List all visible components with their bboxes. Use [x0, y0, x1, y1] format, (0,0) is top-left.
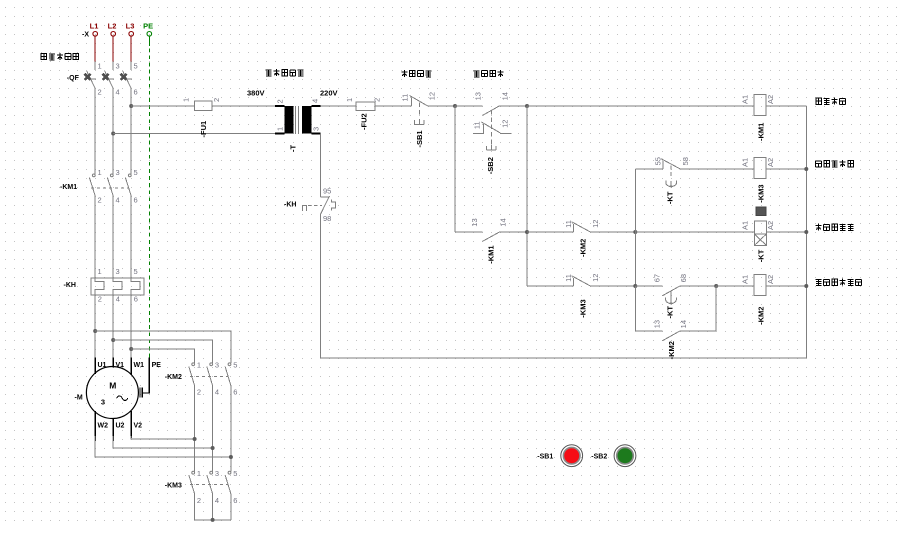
thermal contact KH trip symbol — [331, 199, 335, 210]
transformer T core lines — [296, 106, 299, 134]
node rung1 left of SB2 — [453, 104, 457, 108]
node 380V top tap (QF pole3) — [129, 104, 133, 108]
start button SB2 aux NC contact — [473, 122, 511, 133]
contactor KM3 pole1 contact — [189, 471, 195, 494]
contactor KM2 pole1 contact — [189, 363, 195, 386]
motor M stub W1 — [130, 358, 132, 375]
node 380V bottom tap (QF pole2) — [111, 132, 115, 136]
svg-text:2: 2 — [276, 99, 285, 103]
svg-text:PE: PE — [143, 22, 153, 31]
wire V2 to KM2 pole1 bottom — [131, 436, 194, 439]
wire rung4 left corner — [527, 285, 574, 287]
wire rung4 KT to node — [679, 285, 716, 287]
wire QF pole2 top — [112, 61, 114, 70]
chinese — [816, 224, 854, 231]
contactor KM3 pole2 contact — [207, 471, 213, 494]
svg-text:-KM2: -KM2 — [667, 341, 676, 359]
timer contact KT delay symbol — [666, 166, 677, 189]
node bus rung3 — [804, 230, 808, 234]
wire node to SB2 — [455, 105, 483, 107]
chinese — [816, 160, 854, 167]
svg-text:13: 13 — [470, 218, 479, 226]
wire tap U1 to KM2 pole3 — [95, 331, 231, 363]
motor M stub W2 — [94, 411, 96, 441]
svg-text:1: 1 — [98, 267, 102, 276]
svg-text:4: 4 — [116, 88, 120, 97]
svg-text:-KM2: -KM2 — [578, 239, 587, 257]
breaker QF pole1 blade — [85, 71, 96, 88]
svg-text:3: 3 — [215, 469, 219, 478]
wire coil KM1 A2 to bus — [766, 105, 806, 107]
wire bottom control bus — [321, 357, 807, 359]
svg-text:1: 1 — [345, 98, 354, 102]
svg-text:-KT: -KT — [666, 191, 675, 204]
svg-text:-KT: -KT — [757, 249, 766, 262]
wire holding branch left horizontal — [455, 231, 482, 233]
wire W2 to KM2 pole3 bottom — [95, 436, 231, 457]
svg-text:12: 12 — [591, 274, 600, 282]
wire coil KT A2 to bus — [766, 231, 806, 233]
motor M circle — [86, 367, 138, 419]
chinese label — [41, 53, 79, 60]
contactor KM2 pole3 contact — [225, 363, 231, 386]
wire KH98 down to bottom bus — [320, 214, 322, 358]
wire FU2 to SB1 — [375, 105, 412, 107]
svg-text:A1: A1 — [740, 95, 749, 104]
wire PE dashed run — [148, 48, 150, 357]
terminal L1 circle — [93, 32, 98, 37]
svg-text:A2: A2 — [766, 275, 775, 284]
svg-text:W2: W2 — [98, 422, 109, 429]
wire 380V bottom run — [113, 133, 275, 135]
start button SB2 actuator — [490, 110, 492, 144]
svg-text:6: 6 — [134, 195, 138, 204]
svg-text:14: 14 — [501, 92, 510, 100]
svg-text:4: 4 — [215, 496, 219, 505]
wire KM3 pole2 down — [212, 494, 214, 520]
wire KM1 pole3 bottom — [130, 196, 132, 278]
svg-text:-KM3: -KM3 — [757, 184, 766, 202]
svg-text:A1: A1 — [740, 158, 749, 167]
svg-text:11: 11 — [473, 121, 482, 129]
node rung4 x716 — [714, 284, 718, 288]
wire rung1 to KM1 coil — [527, 105, 754, 107]
svg-text:11: 11 — [401, 94, 410, 102]
contactor KM2 mechanical link — [190, 375, 228, 377]
svg-text:-X: -X — [82, 31, 89, 38]
wire KM3 pole3 down — [230, 494, 232, 520]
wire L1 stub — [94, 36, 96, 61]
svg-text:-FU2: -FU2 — [359, 113, 368, 130]
wire KM2 pole2 down — [212, 386, 214, 472]
contactor KM3 mechanical link — [190, 484, 228, 486]
motor M stub U1 — [94, 358, 96, 374]
svg-text:68: 68 — [679, 274, 688, 282]
breaker QF pole2 blade — [103, 71, 114, 88]
wire rung3 KM2NC to node — [590, 231, 635, 233]
svg-text:3: 3 — [116, 62, 120, 71]
svg-text:U2: U2 — [116, 422, 125, 429]
chinese label — [266, 69, 304, 76]
node bus rung2 — [804, 167, 808, 171]
svg-text:-KM2: -KM2 — [757, 307, 766, 325]
svg-text:380V: 380V — [247, 89, 265, 98]
transformer T primary winding — [275, 106, 293, 134]
wire tap V1 to KM2 pole2 — [113, 340, 212, 363]
wire rung4 to KT contact — [635, 285, 662, 287]
svg-text:3: 3 — [101, 397, 105, 406]
svg-text:-KH: -KH — [64, 282, 76, 289]
svg-text:W1: W1 — [134, 362, 145, 369]
svg-text:V2: V2 — [134, 422, 143, 429]
svg-text:-KM2: -KM2 — [165, 374, 182, 381]
timer contact -KT delayed NO contact — [662, 286, 679, 296]
motor M stub V2 — [130, 411, 132, 438]
pushbutton SB2 green head — [614, 445, 636, 467]
svg-text:14: 14 — [499, 218, 508, 226]
wire T pin3 down — [320, 134, 322, 198]
wire L2 stub — [112, 36, 114, 61]
wire rung4 to KM2 coil — [716, 285, 754, 287]
wire KH pole2 down — [112, 295, 114, 357]
svg-text:6: 6 — [134, 295, 138, 304]
node W2 join — [229, 455, 233, 459]
svg-text:5: 5 — [134, 168, 138, 177]
svg-text:1: 1 — [182, 98, 191, 102]
svg-text:2: 2 — [98, 295, 102, 304]
svg-text:-KM3: -KM3 — [578, 299, 587, 317]
svg-text:2: 2 — [197, 387, 201, 396]
wire QF pole1 top — [94, 61, 96, 70]
svg-text:58: 58 — [681, 157, 690, 165]
overload KH pole3 heater element — [131, 278, 140, 295]
chinese label — [474, 70, 504, 77]
wire coil KM3 A2 to bus — [766, 168, 806, 170]
svg-text:-FU1: -FU1 — [199, 121, 208, 138]
wire right control bus — [805, 106, 807, 358]
wire KM3 pole1 down — [194, 494, 196, 520]
thermal contact KH actuator dashes — [308, 204, 322, 206]
contact -KM2 aux NO contact — [662, 331, 679, 341]
motor M stub U2 — [112, 418, 114, 441]
wire KM2 pole1 down — [194, 386, 196, 472]
svg-text:2: 2 — [98, 195, 102, 204]
node motor feed W1 — [129, 347, 133, 351]
wire holding branch left vertical — [454, 106, 456, 232]
node star point — [211, 518, 215, 522]
svg-text:-M: -M — [75, 395, 83, 402]
svg-text:6: 6 — [134, 88, 138, 97]
wire rung4 KM3NC to node — [590, 285, 635, 287]
svg-text:6: 6 — [233, 387, 237, 396]
wire tap W1 to KM2 pole1 — [131, 349, 194, 363]
wire rung3 to KT coil — [635, 231, 754, 233]
svg-text:-SB2: -SB2 — [591, 453, 607, 460]
svg-text:2: 2 — [212, 98, 221, 102]
svg-text:11: 11 — [564, 220, 573, 228]
fuse FU1 body — [194, 101, 212, 110]
timer contact KT delay symbol 2 — [666, 291, 677, 305]
node motor feed U1 — [93, 329, 97, 333]
svg-text:-QF: -QF — [67, 75, 80, 82]
contactor KM2 pole2 contact — [207, 363, 213, 386]
stop button -SB1 NC contact — [410, 96, 428, 107]
svg-text:-KH: -KH — [284, 201, 296, 208]
stop button SB1 operator head — [414, 119, 424, 125]
motor chassis connection — [140, 388, 142, 398]
contactor KM1 pole2 contact — [107, 174, 113, 196]
svg-text:-KT: -KT — [666, 306, 675, 319]
svg-text:1: 1 — [197, 360, 201, 369]
contactor KM1 mechanical link — [91, 187, 129, 189]
node bus rung4 — [804, 284, 808, 288]
chinese label — [401, 70, 431, 77]
wire aux loop left vertical — [634, 286, 636, 331]
start button SB2 operator head — [487, 145, 497, 151]
chinese — [816, 98, 846, 105]
svg-text:12: 12 — [500, 120, 509, 128]
svg-text:-SB1: -SB1 — [415, 130, 424, 147]
wire rung2 to KM3 coil — [680, 168, 754, 170]
svg-text:M: M — [109, 380, 116, 390]
svg-text:L2: L2 — [108, 22, 117, 31]
svg-text:A1: A1 — [740, 275, 749, 284]
svg-text:67: 67 — [652, 274, 661, 282]
wire KH pole3 down — [130, 295, 132, 357]
wire U2 to KM2 pole2 bottom — [113, 436, 212, 448]
svg-text:3: 3 — [116, 168, 120, 177]
svg-text:A1: A1 — [740, 221, 749, 230]
contactor coil -KM1 — [754, 95, 766, 116]
svg-text:1: 1 — [98, 62, 102, 71]
contactor KM1 pole3 contact — [125, 174, 131, 196]
thermal contact -KH NC contact — [321, 196, 330, 214]
node rung3 x635 — [633, 230, 637, 234]
overload KH pole2 heater element — [113, 278, 122, 295]
overload KH pole1 heater element — [95, 278, 104, 295]
svg-text:-KM1: -KM1 — [486, 245, 495, 263]
transformer T secondary winding — [302, 106, 321, 134]
wire coil KM2 A2 to bus — [766, 285, 806, 287]
wire vertical x527 rung1 to rung4 — [526, 106, 528, 286]
motor M stub V1 — [112, 358, 114, 368]
svg-text:4: 4 — [215, 387, 219, 396]
wire 380V top run — [131, 105, 194, 107]
svg-text:-SB1: -SB1 — [537, 453, 553, 460]
wire KM1 pole2 bottom — [112, 196, 114, 278]
svg-text:1: 1 — [197, 469, 201, 478]
wire 220V to FU2 — [321, 105, 356, 107]
svg-text:5: 5 — [134, 62, 138, 71]
svg-text:L1: L1 — [90, 22, 99, 31]
thermal overload KH box — [91, 278, 144, 295]
wire SB1 to node — [427, 105, 455, 107]
node U2 join — [211, 446, 215, 450]
svg-text:4: 4 — [310, 99, 319, 103]
svg-text:95: 95 — [323, 186, 331, 195]
wire aux loop right vertical — [715, 286, 717, 331]
svg-text:PE: PE — [152, 362, 162, 369]
wire PE stub — [148, 36, 150, 46]
node rung4 x635 — [633, 284, 637, 288]
breaker QF pole3 blade — [121, 71, 132, 88]
wire aux loop left horizontal — [635, 330, 662, 332]
timer contact -KT delayed NC contact — [661, 159, 680, 169]
svg-text:1: 1 — [276, 127, 285, 131]
contactor coil -KM3 — [754, 158, 766, 179]
svg-text:12: 12 — [591, 220, 600, 228]
motor sine symbol — [117, 396, 128, 401]
wire KH pole1 down — [94, 295, 96, 357]
svg-text:-KM1: -KM1 — [60, 184, 77, 191]
svg-text:5: 5 — [134, 267, 138, 276]
contactor KM3 pole3 contact — [225, 471, 231, 494]
wire KM2 pole3 down — [230, 386, 232, 472]
start button -SB2 NO contact — [483, 106, 500, 115]
svg-text:2: 2 — [373, 98, 382, 102]
svg-text:13: 13 — [652, 320, 661, 328]
wire QF pole3 bottom — [130, 88, 132, 174]
thermal contact KH operator head — [302, 205, 306, 211]
wire holding branch right horizontal — [500, 231, 528, 233]
svg-text:12: 12 — [428, 92, 437, 100]
svg-text:13: 13 — [473, 92, 482, 100]
terminal L3 circle — [129, 32, 134, 37]
stop button SB1 actuator — [418, 103, 420, 118]
svg-text:-T: -T — [289, 145, 298, 152]
chinese — [816, 279, 862, 286]
relay coil -KT (time relay) — [754, 221, 766, 245]
svg-text:4: 4 — [116, 295, 120, 304]
svg-text:220V: 220V — [320, 89, 338, 98]
terminal PE circle — [147, 32, 152, 37]
svg-text:A2: A2 — [766, 221, 775, 230]
motor PE lead — [143, 358, 149, 393]
svg-text:3: 3 — [116, 267, 120, 276]
node holding branch joins x527 — [525, 230, 529, 234]
black box marker below KM3 coil — [756, 207, 766, 216]
fuse FU2 body — [356, 102, 375, 111]
svg-text:A2: A2 — [766, 158, 775, 167]
svg-text:1: 1 — [98, 168, 102, 177]
svg-text:3: 3 — [311, 127, 320, 131]
wire L3 stub — [130, 36, 132, 61]
svg-text:14: 14 — [679, 320, 688, 328]
wire SB2 to node — [499, 105, 527, 107]
wire KM1 pole1 bottom — [94, 196, 96, 278]
svg-text:6: 6 — [233, 496, 237, 505]
contact -KM3 NC interlock contact — [572, 276, 591, 286]
svg-text:4: 4 — [116, 195, 120, 204]
pushbutton SB1 red head — [561, 445, 583, 467]
svg-text:2: 2 — [197, 496, 201, 505]
svg-text:-KM3: -KM3 — [165, 482, 182, 489]
wire QF pole1 bottom — [94, 88, 96, 174]
svg-text:-KM1: -KM1 — [757, 123, 766, 141]
svg-text:A2: A2 — [766, 95, 775, 104]
wire QF pole2 bottom — [112, 88, 114, 174]
wire QF pole3 top — [130, 61, 132, 70]
svg-text:11: 11 — [564, 274, 573, 282]
svg-text:2: 2 — [98, 88, 102, 97]
contactor KM1 pole1 contact — [89, 174, 95, 196]
node V2 join — [193, 437, 197, 441]
contactor coil -KM2 — [754, 275, 766, 296]
svg-text:-SB2: -SB2 — [486, 157, 495, 174]
node rung1 right of SB2 — [525, 104, 529, 108]
wire star point bus — [195, 519, 231, 521]
wire rung3 node to KM2NC — [527, 231, 574, 233]
contact -KM1 aux NO contact — [482, 232, 499, 241]
contact -KM2 NC interlock contact — [572, 222, 591, 232]
wire rung2 left — [635, 168, 663, 170]
wire vertical x635 rung2 to aux loop — [634, 169, 636, 331]
svg-text:3: 3 — [215, 360, 219, 369]
svg-text:5: 5 — [233, 469, 237, 478]
svg-text:L3: L3 — [126, 22, 135, 31]
node motor feed V1 — [111, 338, 115, 342]
svg-text:5: 5 — [233, 360, 237, 369]
wire aux loop right horizontal — [679, 330, 716, 332]
svg-text:98: 98 — [323, 214, 331, 223]
terminal L2 circle — [111, 32, 116, 37]
